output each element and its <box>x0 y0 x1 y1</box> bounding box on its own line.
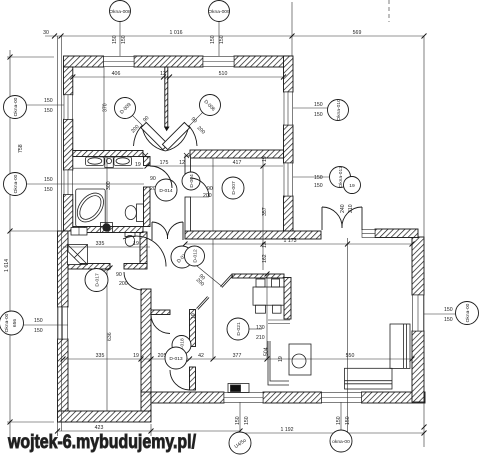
svg-text:150: 150 <box>112 35 118 44</box>
svg-text:90: 90 <box>116 272 122 278</box>
svg-text:240: 240 <box>340 204 346 213</box>
svg-text:19: 19 <box>278 356 284 362</box>
svg-text:150: 150 <box>44 177 53 183</box>
svg-text:504: 504 <box>264 347 270 356</box>
svg-text:210: 210 <box>256 335 265 341</box>
svg-text:758: 758 <box>18 144 24 153</box>
svg-text:1 614: 1 614 <box>4 259 10 272</box>
svg-text:377: 377 <box>233 353 242 359</box>
svg-text:200: 200 <box>203 193 212 199</box>
svg-text:D-013: D-013 <box>169 356 183 362</box>
svg-text:12: 12 <box>262 242 268 248</box>
svg-text:1 173: 1 173 <box>284 238 297 244</box>
svg-text:1 192: 1 192 <box>281 427 294 433</box>
svg-text:Okna-009: Okna-009 <box>208 9 230 15</box>
svg-text:D-004: D-004 <box>189 174 195 188</box>
svg-text:90: 90 <box>150 176 156 182</box>
svg-text:19: 19 <box>135 162 141 168</box>
svg-text:Okna-00: Okna-00 <box>465 303 471 322</box>
svg-text:D-014: D-014 <box>159 188 173 194</box>
svg-text:D-007: D-007 <box>231 181 237 195</box>
svg-text:19: 19 <box>262 156 268 162</box>
svg-text:Okna-010: Okna-010 <box>336 99 342 121</box>
svg-text:150: 150 <box>244 416 250 425</box>
svg-text:12: 12 <box>179 160 185 166</box>
svg-text:19: 19 <box>133 353 139 359</box>
svg-text:19: 19 <box>349 183 355 189</box>
svg-text:okna-00: okna-00 <box>332 439 350 445</box>
svg-text:Okna-00: Okna-00 <box>4 313 10 332</box>
svg-text:335: 335 <box>96 241 105 247</box>
svg-text:417: 417 <box>233 160 242 166</box>
svg-text:150: 150 <box>121 35 127 44</box>
svg-text:150: 150 <box>314 183 323 189</box>
svg-text:1 016: 1 016 <box>170 30 183 36</box>
svg-text:wojtek-6.mybudujemy.pl/: wojtek-6.mybudujemy.pl/ <box>7 432 196 453</box>
svg-text:162: 162 <box>262 254 268 263</box>
svg-text:D-012: D-012 <box>193 249 199 263</box>
svg-text:150: 150 <box>314 102 323 108</box>
svg-text:19: 19 <box>191 313 197 319</box>
svg-text:370: 370 <box>103 103 109 112</box>
svg-text:150: 150 <box>44 187 53 193</box>
svg-text:423: 423 <box>95 425 104 431</box>
svg-text:569: 569 <box>353 30 362 36</box>
svg-text:150: 150 <box>314 112 323 118</box>
svg-text:656: 656 <box>12 319 18 327</box>
svg-text:636: 636 <box>107 332 113 341</box>
svg-text:30: 30 <box>43 30 49 36</box>
svg-text:D-021: D-021 <box>236 322 242 336</box>
svg-text:D-017: D-017 <box>95 273 101 287</box>
svg-text:150: 150 <box>314 175 323 181</box>
svg-text:357: 357 <box>262 207 268 216</box>
svg-text:406: 406 <box>112 71 121 77</box>
svg-text:130: 130 <box>256 325 265 331</box>
svg-text:150: 150 <box>34 328 43 334</box>
svg-text:150: 150 <box>44 108 53 114</box>
svg-text:150: 150 <box>219 35 225 44</box>
svg-text:550: 550 <box>346 353 355 359</box>
svg-text:175: 175 <box>160 160 169 166</box>
svg-text:300: 300 <box>106 181 112 190</box>
svg-text:42: 42 <box>198 353 204 359</box>
svg-text:150: 150 <box>444 317 453 323</box>
svg-text:Okna-00: Okna-00 <box>13 174 19 193</box>
svg-text:150: 150 <box>336 416 342 425</box>
svg-text:150: 150 <box>34 318 43 324</box>
svg-text:Okna-008: Okna-008 <box>109 9 131 15</box>
svg-text:150: 150 <box>44 98 53 104</box>
svg-text:Okna-00: Okna-00 <box>13 97 19 116</box>
svg-text:510: 510 <box>219 71 228 77</box>
svg-text:150: 150 <box>235 416 241 425</box>
svg-text:335: 335 <box>96 353 105 359</box>
svg-text:150: 150 <box>345 416 351 425</box>
svg-text:150: 150 <box>210 35 216 44</box>
svg-text:150: 150 <box>444 307 453 313</box>
svg-text:12: 12 <box>160 71 166 77</box>
